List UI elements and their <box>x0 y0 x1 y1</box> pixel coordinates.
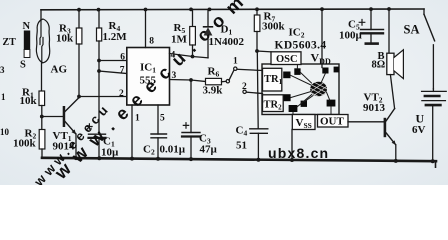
node R5 junction <box>191 55 195 59</box>
wire OUT to VT2 base <box>348 121 384 123</box>
VSS box <box>292 115 315 130</box>
svg-text:AG: AG <box>51 64 68 76</box>
TR1 box <box>263 68 282 91</box>
pad VSS <box>289 105 298 112</box>
wire base node to VT1 base <box>42 116 63 118</box>
wire pin8 to rail <box>145 10 147 48</box>
OSC box <box>271 52 301 65</box>
resistor R4 <box>97 10 128 135</box>
wire pin5 down <box>157 105 159 134</box>
svg-text:3.9k: 3.9k <box>203 85 224 97</box>
wire VSS to ground <box>291 130 293 161</box>
pad TR2 <box>284 94 291 101</box>
svg-text:10: 10 <box>0 127 10 137</box>
chip die blob <box>306 79 334 102</box>
wire VDD to rail <box>321 9 323 67</box>
svg-text:C2: C2 <box>143 144 155 157</box>
contact 1 <box>234 67 237 70</box>
resistor R7 <box>254 9 285 51</box>
pad TR1 <box>283 72 290 79</box>
reed contact lower <box>42 38 43 64</box>
transistor VT1 <box>53 97 80 158</box>
capacitor C1 <box>87 124 119 159</box>
resistor R5 <box>171 10 195 57</box>
svg-text:5: 5 <box>160 114 165 124</box>
svg-text:51: 51 <box>236 140 247 152</box>
contact 2 <box>243 90 246 93</box>
svg-text:ZT: ZT <box>3 37 17 48</box>
svg-text:1: 1 <box>233 57 238 67</box>
battery U <box>412 89 446 161</box>
svg-text:10k: 10k <box>20 95 38 107</box>
node VT1 collector junction <box>77 95 81 99</box>
node C3 junction <box>189 78 193 82</box>
wire pin3 output line <box>170 80 206 82</box>
pad corner <box>334 67 340 73</box>
svg-text:S: S <box>20 60 26 71</box>
wire contact2 to TR2 <box>246 92 262 93</box>
svg-text:0.01µ: 0.01µ <box>160 144 186 156</box>
bond wires <box>291 65 332 115</box>
wire top supply rail <box>41 8 424 11</box>
magnet ZT bar <box>24 31 30 50</box>
diode D1 <box>204 9 245 57</box>
svg-text:10k: 10k <box>56 33 74 45</box>
wire pin7 <box>99 71 127 74</box>
capacitor C5 <box>339 9 384 44</box>
wire contact1 to TR1 <box>237 69 263 70</box>
node dots bottom rail <box>74 156 435 163</box>
svg-text:OSC: OSC <box>276 54 298 65</box>
TR2 box <box>263 95 284 112</box>
wire R2 to ground rail <box>41 149 43 158</box>
wire bottom ground rail <box>42 158 436 161</box>
svg-text:1: 1 <box>135 114 140 124</box>
svg-text:300k: 300k <box>262 21 286 33</box>
svg-text:OUT: OUT <box>320 116 345 128</box>
pad mid <box>301 101 307 107</box>
switch selector pivot <box>226 80 229 83</box>
wire trigger pin2 line <box>79 96 127 98</box>
node R7 bottom junction <box>255 49 259 53</box>
capacitor C4 <box>236 125 268 161</box>
wire R7 node down to C4 <box>256 51 259 129</box>
wire R7 to OSC <box>257 50 271 53</box>
transistor VT2 <box>363 92 396 161</box>
rail end stub <box>435 161 437 167</box>
svg-text:2: 2 <box>242 82 247 92</box>
reed switch AG glass tube <box>36 19 49 63</box>
resistor R6 <box>203 66 227 97</box>
op-amp U1 555 timer box <box>127 48 170 106</box>
svg-text:1.2M: 1.2M <box>103 31 128 43</box>
pad OSC <box>294 68 300 75</box>
node pin7 junction <box>97 69 101 73</box>
wire pin6 <box>99 60 127 62</box>
svg-text:8: 8 <box>149 37 154 47</box>
svg-text:9013: 9013 <box>363 102 386 114</box>
svg-text:N: N <box>23 21 31 32</box>
wire pin1 to ground <box>131 105 133 159</box>
svg-text:R6: R6 <box>208 66 220 79</box>
node pin6 junction <box>97 59 101 63</box>
pad VDD <box>322 68 328 74</box>
switch SA <box>404 9 435 89</box>
wire pin4 reset line <box>170 54 209 58</box>
svg-text:8Ω: 8Ω <box>372 60 386 71</box>
svg-text:1: 1 <box>1 92 6 102</box>
resistor R3 <box>56 10 82 97</box>
svg-text:100µ: 100µ <box>339 30 363 42</box>
speaker B <box>372 9 404 79</box>
capacitor C3 <box>182 80 218 159</box>
wire AG branch from rail <box>40 10 42 20</box>
resistor R1 <box>39 91 45 106</box>
svg-text:SA: SA <box>404 23 420 37</box>
wire speaker to VT2 collector <box>390 75 394 109</box>
wire AG to R1 <box>41 63 43 91</box>
svg-text:6V: 6V <box>412 124 426 136</box>
OUT box <box>318 115 349 128</box>
svg-text:C4: C4 <box>236 125 248 138</box>
svg-text:10µ: 10µ <box>101 147 119 159</box>
edge artifacts <box>0 65 10 137</box>
resistor R2 <box>39 130 45 150</box>
svg-text:VDD: VDD <box>311 51 331 67</box>
switch selector arm <box>229 71 234 80</box>
svg-text:47µ: 47µ <box>200 144 218 156</box>
wire R1 to base node <box>41 106 43 130</box>
node base junction <box>40 115 44 119</box>
svg-text:100k: 100k <box>13 138 37 150</box>
svg-text:IC2: IC2 <box>289 27 305 40</box>
svg-text:6: 6 <box>120 52 125 62</box>
svg-text:ubx8.cn: ubx8.cn <box>268 145 329 161</box>
IC U2 KD5603 module board <box>262 64 339 115</box>
svg-text:7: 7 <box>120 65 125 75</box>
pad OUT <box>327 100 336 107</box>
node dots top rail <box>77 7 391 11</box>
svg-text:3: 3 <box>0 65 5 75</box>
capacitor C2 <box>143 134 186 159</box>
reed contact upper <box>40 20 41 45</box>
